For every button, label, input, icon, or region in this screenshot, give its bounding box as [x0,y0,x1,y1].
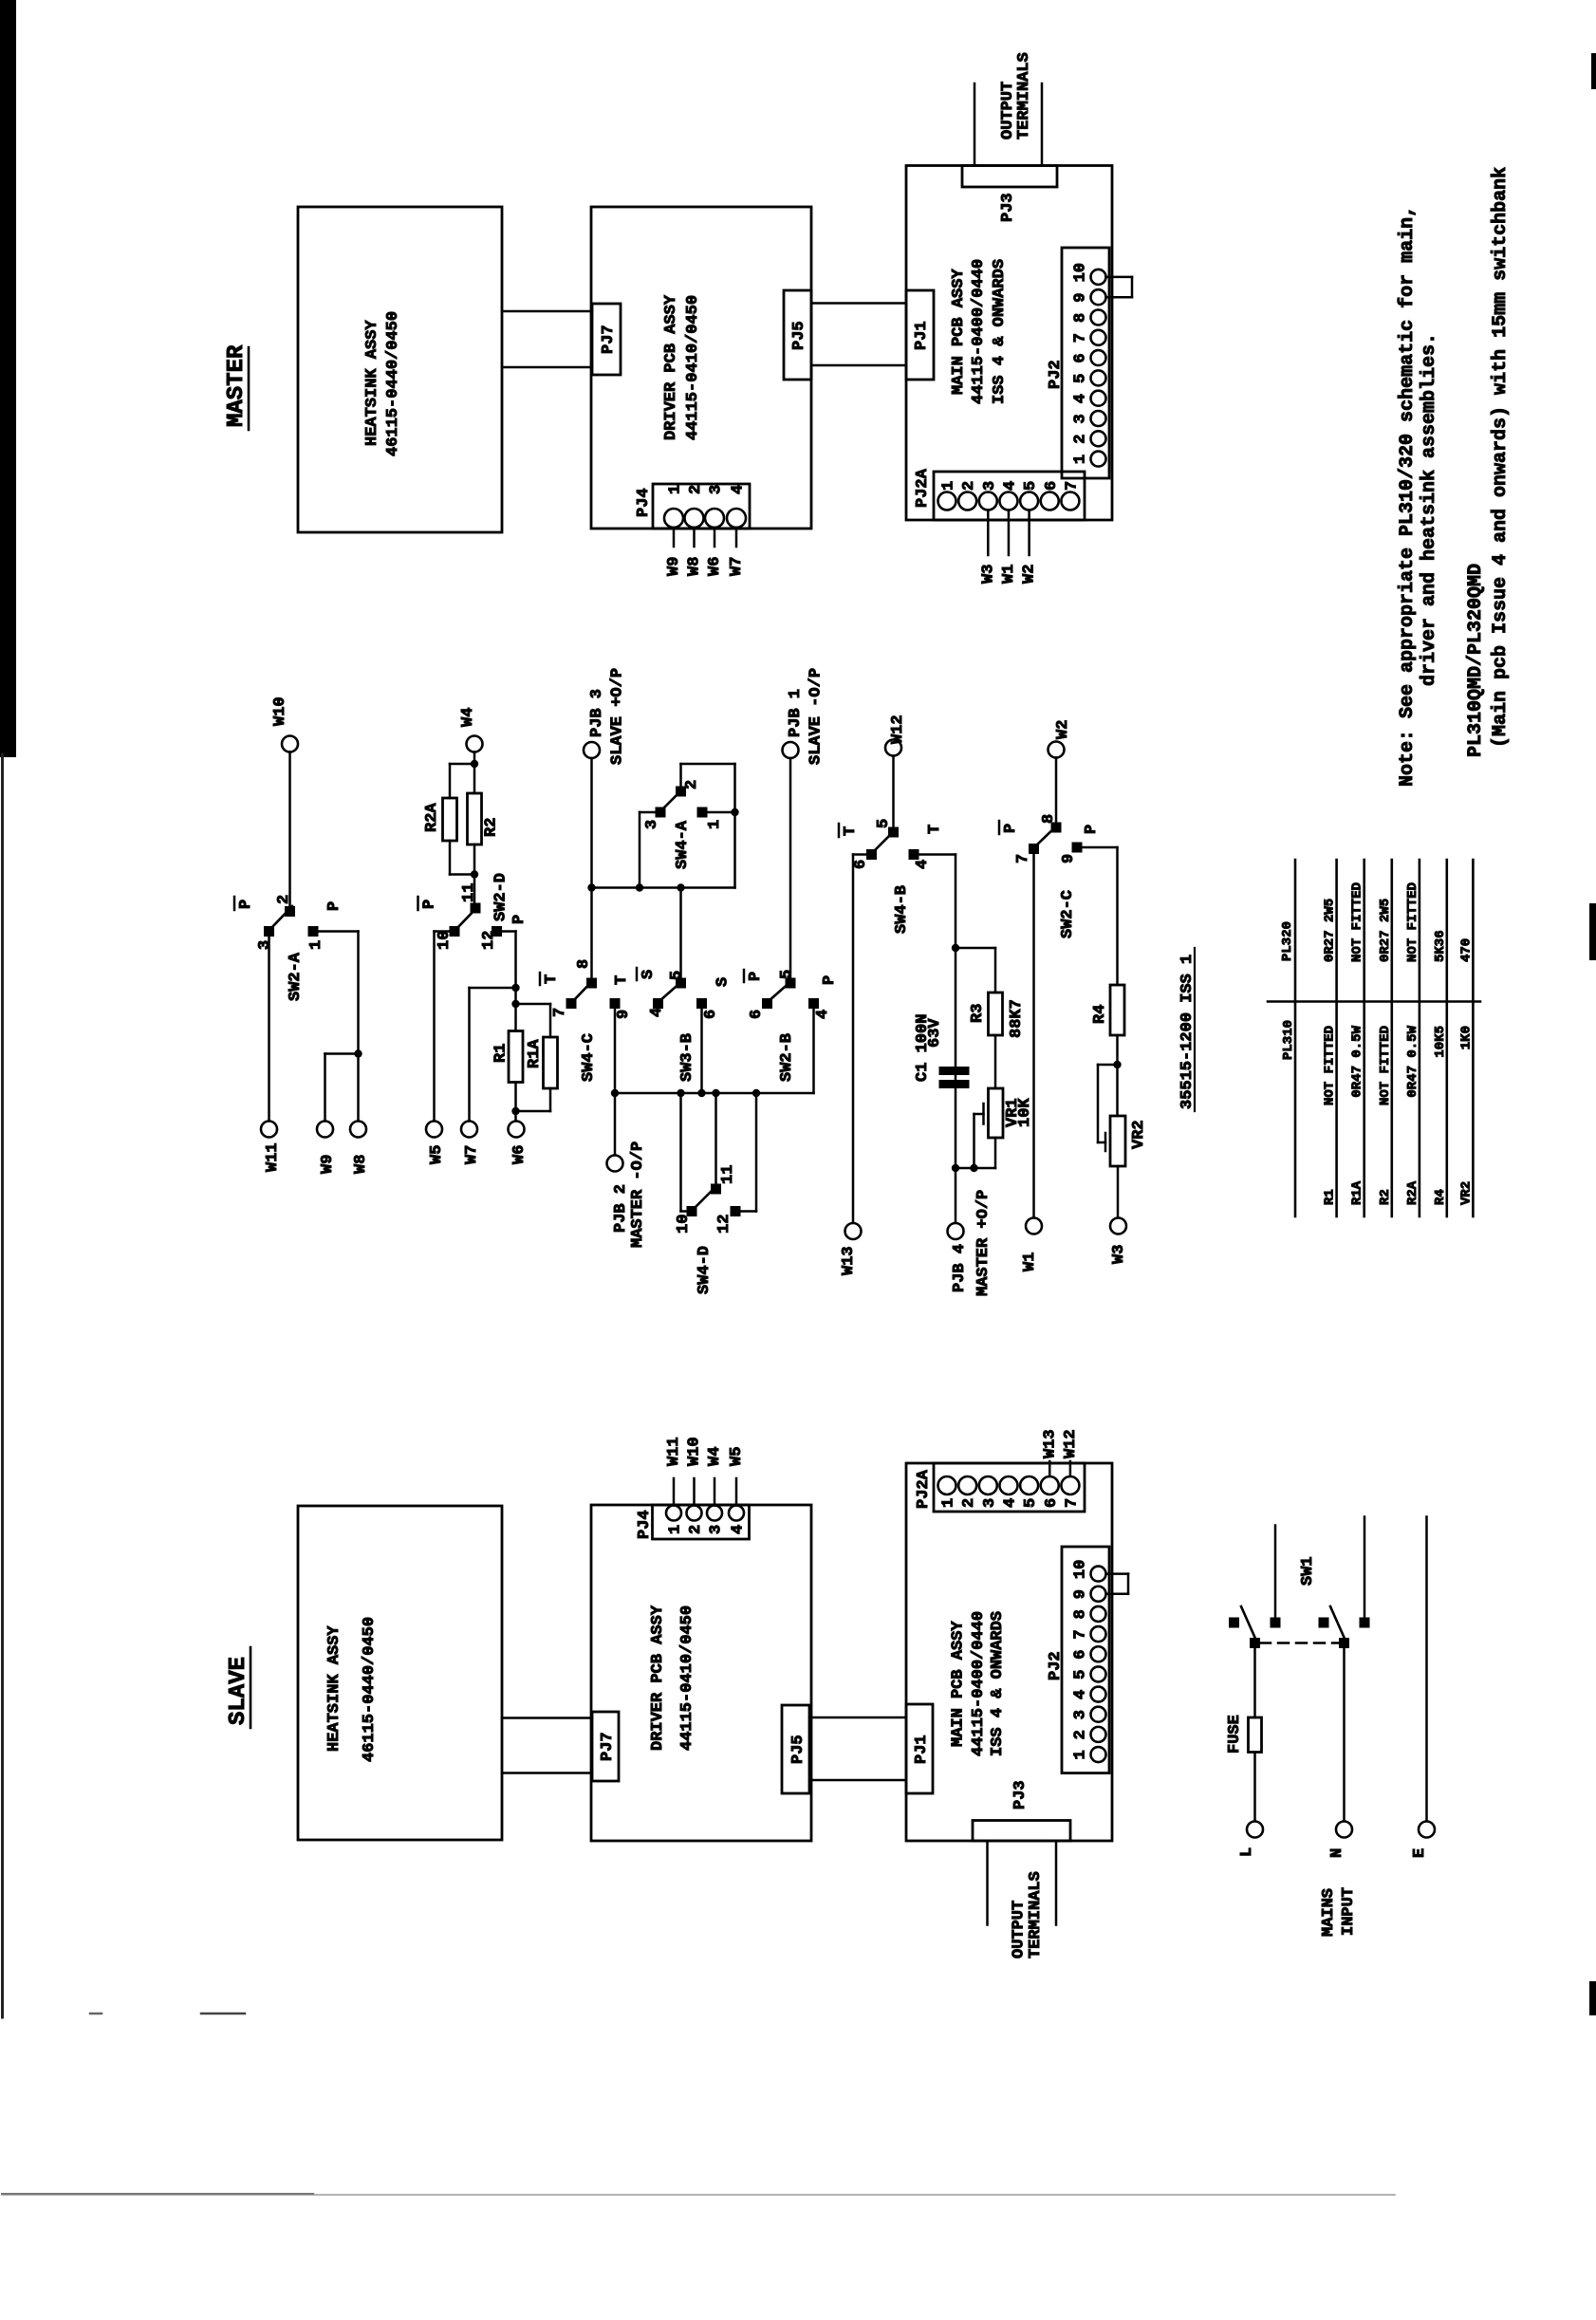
wire SW1 pole B stub [1364,1517,1366,1618]
switch SW2-B pin 4 [808,998,832,1019]
svg-text:PJ7: PJ7 [599,1732,617,1761]
label SW2-A [287,952,305,1001]
svg-text:W2: W2 [1054,720,1072,739]
wire output terminals (master) [974,84,1042,166]
switch SW4-C pin 9 [610,998,634,1019]
svg-text:W4: W4 [459,708,477,727]
wire branch to W7 [470,988,516,1122]
wire ribbon PJ5 to PJ1 (slave) [809,1717,906,1780]
switch SW3-B blade [659,980,683,1001]
svg-text:PJ3: PJ3 [999,193,1017,222]
connector PJ3 (slave) [973,1780,1070,1841]
svg-text:1: 1 [1072,1750,1090,1759]
wire fuse to L terminal [1253,1753,1256,1822]
wire PJ4 pin3 stub W6 [714,528,716,547]
wire bus [615,1092,814,1095]
svg-text:P: P [747,972,765,981]
table row R1A [1350,882,1365,1205]
wire SW4-A pin2 riser [681,764,735,888]
svg-text:0R47 0.5W: 0R47 0.5W [1350,1025,1365,1097]
svg-text:0R27 2W5: 0R27 2W5 [1323,899,1338,962]
svg-text:SLAVE -O/P: SLAVE -O/P [807,668,826,765]
wire SW2-D pin12 down [502,932,516,1005]
svg-text:SW1: SW1 [1299,1556,1317,1586]
label S SW3-B [714,977,733,987]
wire R3 top lead [956,948,995,993]
driver pcb assy box (slave) [591,1505,811,1841]
svg-text:6: 6 [852,860,870,869]
switch SW2-C pin 8 [1040,814,1062,833]
svg-text:R3: R3 [969,1004,987,1023]
label W1 [1000,565,1018,584]
wire PJ4 slave pin2 stub W10 [693,1478,696,1506]
label OUTPUT TERMINALS (slave) [1011,1871,1046,1958]
label W9 [665,557,683,576]
svg-text:W7: W7 [728,557,746,576]
switch SW4-C pin 7 [551,998,577,1017]
svg-text:6: 6 [1043,1498,1061,1508]
switch SW2-A pin 3 [256,926,274,950]
junction dot bus left end [611,1089,619,1097]
svg-text:NOT FITTED: NOT FITTED [1378,1026,1393,1105]
svg-text:PJ4: PJ4 [635,488,653,517]
connector PJ2A (master) [914,468,1085,520]
svg-text:W1: W1 [1021,1253,1039,1271]
svg-text:10: 10 [436,931,454,950]
junction dot VR2 wiper branch [1113,1061,1121,1068]
wire PJ2A pin5 stub W2 [1028,510,1030,556]
switch SW3-B pin 5 [668,971,686,989]
svg-text:PJ2A: PJ2A [915,1469,933,1509]
switch SW1 pole B common contact [1339,1638,1349,1648]
wire SW2-A pin1 to W8 [319,932,359,1122]
wire W12 to SW4-B pin5 [892,756,895,827]
terminal W5 [426,1122,446,1165]
junction dot SW3-B riser [677,883,684,891]
wire R2A top lead [450,764,474,798]
wire PJ4 slave pin3 stub W4 [714,1478,716,1506]
svg-text:5: 5 [1022,1498,1040,1508]
svg-text:9: 9 [615,1010,633,1019]
resistor R1A [526,1037,558,1088]
main pcb text (master) [950,259,1009,404]
wire R2 bottom to SW2-D pin11 [473,844,476,903]
label T SW4-B [926,825,944,834]
switch SW2-C blade [1035,825,1058,846]
label SW2-C [1059,890,1077,938]
label T-bar SW4-C [540,973,561,985]
wire bus to SW4-D pin11 [714,1093,717,1184]
terminal W12 [885,715,907,755]
svg-text:R2A: R2A [423,803,441,832]
terminal W3 [1110,1218,1128,1265]
switch SW2-A pin 2 [275,895,295,917]
svg-text:driver and heatsink assemblies: driver and heatsink assemblies. [1419,333,1440,686]
svg-text:MAIN PCB ASSY: MAIN PCB ASSY [950,269,968,395]
wire PJ2A slave pin7 stub W12 [1069,1461,1072,1476]
svg-text:4: 4 [1072,1690,1090,1699]
svg-text:W7: W7 [463,1145,481,1164]
svg-text:2: 2 [687,485,705,494]
svg-text:R4: R4 [1091,1005,1109,1024]
note text line 1 [1397,206,1419,787]
switch SW1 gang link (dashed) [1260,1642,1339,1644]
section label MASTER [224,344,250,430]
svg-text:HEATSINK ASSY: HEATSINK ASSY [363,320,381,446]
svg-text:3: 3 [1072,414,1090,423]
svg-text:W8: W8 [352,1155,370,1174]
switch SW2-B pin 5 [778,970,796,989]
table row R4 [1433,930,1448,1205]
junction dot R1/R1A top [511,1000,519,1008]
wire SW4-A pin3 rail [640,812,656,888]
switch SW1 pole A common contact [1250,1638,1260,1648]
wire ribbon PJ5 to PJ1 (master) [811,304,906,366]
svg-text:7: 7 [1072,333,1090,343]
terminal W8 [350,1122,370,1175]
svg-text:W2: W2 [1021,565,1039,584]
driver pcb assy box (master) [591,207,811,529]
svg-text:R1: R1 [492,1044,510,1063]
resistor R4 [1091,985,1124,1035]
svg-text:SLAVE +O/P: SLAVE +O/P [609,668,627,765]
label W11 (slave PJ4) [665,1437,683,1466]
label P SW2-A [325,901,343,911]
terminal W4 [459,708,483,752]
svg-text:46115-0440/0450: 46115-0440/0450 [361,1617,379,1762]
resistor R2A [423,798,457,841]
svg-text:MASTER +O/P: MASTER +O/P [974,1190,993,1296]
switch SW1 pole B stub contact [1360,1618,1370,1628]
svg-text:W5: W5 [728,1447,746,1466]
svg-text:P: P [510,915,529,924]
label P-bar SW2-A [234,897,255,910]
svg-text:470: 470 [1458,938,1474,962]
connector PJ2 (slave) [1047,1547,1109,1773]
svg-text:W12: W12 [1062,1429,1080,1458]
label OUTPUT TERMINALS (master) [999,52,1033,139]
switch SW2-B blade [769,980,792,1001]
wire PJ2 pins 9-10 link (master) [1106,277,1133,297]
svg-text:10: 10 [1072,1560,1090,1579]
table row rules [1295,860,1473,1216]
svg-text:3: 3 [708,1525,726,1534]
potentiometer VR2 wiper bar [1104,1133,1107,1151]
wire SW1 to fuse [1253,1648,1256,1717]
label W8 [686,557,704,576]
resistor R1 [492,1031,524,1083]
wire SW3-B pin6 to bus [700,1009,703,1093]
svg-text:Note: See appropriate PL3: Note: See appropriate PL310/320 schemati… [1397,206,1419,787]
wire SW4-B pin4 to PJB4 [919,855,956,1224]
svg-text:1: 1 [667,1525,685,1534]
svg-text:3: 3 [643,820,661,829]
svg-text:L: L [1238,1847,1256,1857]
svg-text:88K7: 88K7 [1008,999,1026,1038]
svg-text:MAINS: MAINS [1320,1888,1338,1937]
connector PJ1 (slave) [906,1704,933,1793]
svg-text:2: 2 [960,1498,978,1508]
connector PJ1 (master) [906,290,934,380]
label T SW4-C [613,975,631,985]
svg-text:PJ5: PJ5 [790,321,808,350]
junction dot R2A top [471,760,478,768]
junction dot W7 branch [511,984,519,992]
svg-text:W11: W11 [665,1437,683,1466]
label W7 [728,557,746,576]
svg-text:R2: R2 [483,818,501,837]
svg-text:7: 7 [551,1008,569,1017]
wire R4 to VR2 [1116,1035,1119,1116]
label W3 [979,565,997,584]
svg-text:6: 6 [1043,481,1061,491]
switch SW2-A pin 1 [307,926,325,950]
terminal PJB 1 [783,668,826,765]
switch SW4-A pin 2 [676,780,701,797]
svg-text:R2A: R2A [1405,1180,1420,1205]
switch SW4-A blade [661,789,682,810]
svg-text:10K: 10K [1016,1098,1034,1127]
svg-text:2: 2 [960,481,978,491]
wire VR2 to W3 [1117,1166,1120,1218]
svg-text:PL310: PL310 [1281,1020,1296,1060]
switch SW4-D blade [693,1185,717,1210]
resistor R2 [468,793,501,844]
resistor R3 [969,993,1026,1038]
wire SW4-B pin6 to W13 [853,855,866,1224]
wire W2 to SW2-C pin8 [1055,758,1058,823]
svg-text:DRIVER PCB ASSY: DRIVER PCB ASSY [662,294,680,440]
connector PJ4 (master) [635,484,750,529]
svg-text:PJ4: PJ4 [636,1510,654,1539]
heatsink assy text (master) [363,311,402,456]
scan artifact black edge bar top-left [0,0,16,757]
svg-text:W6: W6 [510,1145,529,1164]
label P-bar SW2-B [744,970,765,982]
wire rail down to SW3-B pin5 [679,888,682,978]
svg-text:(Main pcb Issue 4 and onwards): (Main pcb Issue 4 and onwards) with 15mm… [1490,167,1512,748]
svg-text:PJ3: PJ3 [1011,1780,1030,1810]
main pcb text (slave) [950,1611,1008,1756]
svg-text:7: 7 [1072,1629,1090,1639]
wire R1A bottom lead [516,1088,551,1111]
svg-text:44115-0410/0450: 44115-0410/0450 [678,1605,696,1751]
svg-text:T: T [613,975,631,985]
label S-bar SW3-B [637,968,658,980]
switch SW2-A blade [269,906,292,930]
label SW4-C [580,1033,598,1082]
svg-text:8: 8 [1040,814,1058,824]
svg-text:W13: W13 [1041,1429,1059,1458]
svg-text:4: 4 [1001,1498,1019,1508]
svg-text:MAIN PCB ASSY: MAIN PCB ASSY [950,1621,968,1747]
svg-text:FUSE: FUSE [1226,1715,1244,1754]
terminal W10 [271,696,298,752]
label MAINS INPUT [1320,1887,1358,1937]
wire PJ4 pin1 stub W9 [673,528,676,547]
terminal N [1328,1822,1352,1859]
wire SW2-C pin9 to R4 [1083,847,1118,985]
svg-text:5K36: 5K36 [1433,930,1448,962]
table row R2 [1378,899,1393,1205]
svg-text:7: 7 [1063,481,1081,491]
terminal E [1411,1822,1435,1859]
wire W10 to SW2-A pin2 [288,752,291,907]
svg-text:W4: W4 [706,1447,724,1466]
wire VR1 bottom lead [956,1138,995,1168]
connector PJ4 (slave) [636,1505,750,1539]
svg-text:SW4-B: SW4-B [893,885,911,934]
label P SW2-D [510,915,529,924]
svg-text:NOT FITTED: NOT FITTED [1405,882,1420,962]
svg-text:8: 8 [575,959,593,969]
driver pcb text (slave) [649,1605,696,1751]
svg-text:R1A: R1A [526,1039,544,1068]
switch SW4-D pin 10 [675,1206,697,1234]
switch SW4-A pin 1 [697,807,725,830]
switch SW2-C pin 9 [1060,843,1083,864]
svg-text:44115-0400/0440: 44115-0400/0440 [970,259,988,404]
svg-text:E: E [1411,1848,1429,1858]
svg-text:8: 8 [1072,313,1090,323]
svg-text:SW2-D: SW2-D [492,873,510,921]
label SW4-A [674,820,692,869]
heatsink assy box (slave) [298,1506,502,1840]
terminal W1 [1021,1218,1042,1272]
svg-text:63V: 63V [926,1018,944,1048]
svg-text:5: 5 [778,970,796,979]
svg-text:2: 2 [683,780,701,789]
label SW2-B [778,1033,796,1082]
svg-text:0R27 2W5: 0R27 2W5 [1378,899,1393,962]
svg-text:PJ2: PJ2 [1047,360,1065,389]
wire PJ2A slave pin6 stub W13 [1049,1461,1051,1476]
wire SW2-C pin7 to W1 [1032,854,1035,1218]
svg-text:PJ5: PJ5 [789,1735,807,1764]
switch SW1 pole A stub contact [1271,1618,1281,1628]
svg-text:9: 9 [1072,292,1090,302]
svg-text:P: P [325,901,343,911]
svg-text:W9: W9 [665,557,683,576]
wire R3 to VR1 [994,1035,997,1088]
wire PJB1 down to SW2-B pin5 [789,758,792,978]
svg-text:1: 1 [1072,455,1090,464]
wire SW2-D pin10 to W5 [435,932,450,1122]
wire R2A bottom lead [450,841,474,875]
capacitor C1 [914,1014,970,1088]
svg-text:NOT FITTED: NOT FITTED [1323,1026,1338,1105]
terminal L [1238,1822,1263,1858]
svg-text:R1: R1 [1323,1189,1338,1205]
svg-text:PJB 1: PJB 1 [787,689,805,737]
wire output terminals (slave) [988,1841,1057,1925]
svg-text:VR2: VR2 [1458,1181,1474,1205]
junction dot bus to SW3-B pin6 [697,1089,705,1097]
svg-text:P: P [237,900,255,909]
svg-text:MASTER -O/P: MASTER -O/P [629,1141,647,1248]
wire PJ4 slave pin1 stub W11 [673,1478,676,1506]
switch SW4-C blade [572,980,593,1002]
potentiometer VR2 [1110,1116,1148,1166]
junction dot R1/R1A bottom [511,1107,519,1115]
svg-text:PJ2: PJ2 [1047,1651,1065,1680]
svg-text:1K0: 1K0 [1458,1026,1474,1049]
wire SW4-C pin9 down to PJB2 [614,1009,617,1156]
terminal W2 [1049,720,1073,758]
wire ribbon heatsink to PJ7 (master) [502,311,592,367]
switch SW2-B pin 6 [748,998,772,1019]
svg-text:S: S [640,970,658,979]
scan artifact right edge marks [1589,53,1596,2015]
svg-text:7: 7 [1014,854,1032,863]
svg-text:S: S [714,977,733,987]
label SW4-B [893,885,911,934]
table row R1 [1323,899,1338,1205]
svg-text:3: 3 [981,481,999,491]
svg-text:4: 4 [1001,481,1019,491]
svg-text:W11: W11 [264,1142,282,1172]
svg-text:10: 10 [1072,263,1090,282]
junction dot VR1 wiper tap [970,1164,977,1172]
connector PJ3 (master) [962,166,1057,223]
svg-text:P: P [1002,824,1020,833]
svg-text:9: 9 [1060,854,1078,863]
svg-text:P: P [421,900,439,909]
switch SW4-D pin 11 [711,1165,737,1195]
junction dot R2A bottom [471,870,478,878]
wire PJ2A pin3 stub W3 [987,510,990,556]
svg-text:SW2-C: SW2-C [1059,890,1077,938]
svg-text:W10: W10 [686,1437,704,1466]
svg-text:N: N [1328,1848,1346,1858]
wire SW2-B pin4 to bus [812,1009,815,1093]
wire VR2 wiper tap [1098,1065,1118,1142]
switch SW1 pole B fixed contact [1319,1618,1329,1628]
wire SW2-A pin3 to W11 [268,937,270,1122]
connector PJ7 (slave) [592,1712,619,1781]
wire R1A top lead [516,1004,551,1037]
wire branch to W9 [325,1054,359,1122]
switch SW4-C pin 8 [575,959,597,989]
svg-text:T: T [926,825,944,834]
svg-text:R4: R4 [1433,1189,1448,1205]
svg-text:PJ1: PJ1 [913,1735,931,1764]
switch SW2-C pin 7 [1014,844,1039,863]
connector PJ7 (master) [592,304,621,375]
svg-text:4: 4 [648,1008,666,1017]
switch SW4-B pin 6 [852,849,877,869]
connector PJ2 (master) [1047,248,1109,478]
junction dot W9 branch [354,1049,362,1057]
svg-text:P: P [821,975,839,985]
wire ribbon heatsink to PJ7 (slave) [502,1718,592,1773]
svg-text:12: 12 [715,1215,733,1234]
label W10 (slave PJ4) [686,1437,704,1466]
svg-text:SW4-A: SW4-A [674,820,692,869]
svg-text:PJB 4: PJB 4 [951,1244,969,1292]
junction dot PJB3 rail [587,883,595,891]
svg-text:W6: W6 [706,557,724,576]
svg-text:P: P [1083,825,1101,834]
svg-text:PJB 3: PJB 3 [588,689,606,737]
section label SLAVE [226,1647,251,1728]
svg-text:W12: W12 [889,715,907,744]
junction dot main line bottom [952,1164,959,1172]
connector PJ5 (master) [784,290,811,380]
wire PJB3 down to SW4-C pin8 [590,758,593,978]
svg-text:ISS 4 & ONWARDS: ISS 4 & ONWARDS [989,1611,1007,1756]
switch SW4-B pin 5 [875,819,899,838]
